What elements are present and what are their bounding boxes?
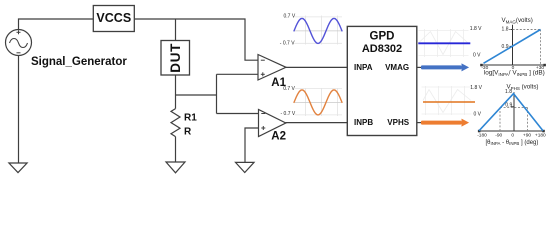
svg-text:VCCS: VCCS bbox=[96, 11, 131, 25]
svg-text:+180: +180 bbox=[535, 132, 546, 138]
svg-text:0.9: 0.9 bbox=[505, 102, 512, 108]
svg-text:- 0.7 V: - 0.7 V bbox=[280, 40, 295, 46]
svg-text:AD8302: AD8302 bbox=[362, 43, 402, 55]
svg-text:0.7 V: 0.7 V bbox=[283, 86, 295, 92]
svg-text:1.8: 1.8 bbox=[505, 89, 512, 95]
svg-text:DUT: DUT bbox=[168, 43, 183, 73]
svg-text:- 0.7 V: - 0.7 V bbox=[281, 111, 296, 117]
svg-text:VPHS: VPHS bbox=[387, 118, 409, 127]
svg-text:Signal_Generator: Signal_Generator bbox=[31, 56, 127, 68]
svg-text:INPB: INPB bbox=[354, 118, 373, 127]
svg-text:0.9: 0.9 bbox=[502, 44, 509, 50]
svg-text:1.8 V: 1.8 V bbox=[470, 26, 482, 32]
svg-text:0 V: 0 V bbox=[474, 112, 482, 118]
svg-text:0 V: 0 V bbox=[473, 52, 481, 58]
svg-text:-90: -90 bbox=[495, 132, 502, 138]
svg-text:R: R bbox=[184, 127, 192, 138]
svg-text:0: 0 bbox=[511, 132, 514, 138]
svg-text:log[VINPA/ VINPB ] (dB): log[VINPA/ VINPB ] (dB) bbox=[484, 70, 545, 77]
svg-text:INPA: INPA bbox=[354, 63, 373, 72]
svg-text:VMAG: VMAG bbox=[385, 63, 409, 72]
svg-text:-180: -180 bbox=[477, 132, 487, 138]
svg-text:1.8: 1.8 bbox=[502, 27, 509, 33]
svg-text:[θINPA - θINPB ] (deg): [θINPA - θINPB ] (deg) bbox=[486, 140, 539, 146]
svg-text:A2: A2 bbox=[271, 131, 286, 143]
svg-text:0.7 V: 0.7 V bbox=[284, 14, 296, 20]
svg-text:R1: R1 bbox=[184, 113, 197, 124]
svg-text:GPD: GPD bbox=[370, 30, 395, 42]
svg-text:1.8 V: 1.8 V bbox=[470, 85, 482, 91]
svg-text:+90: +90 bbox=[523, 132, 531, 138]
